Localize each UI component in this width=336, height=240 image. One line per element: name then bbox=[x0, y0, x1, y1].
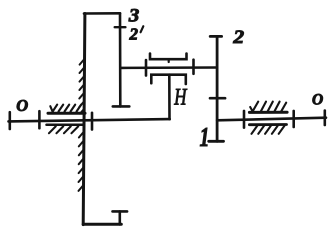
shaft O-O right segment bbox=[217, 118, 326, 121]
gear 2-1 body bbox=[216, 36, 219, 141]
shaft O-O left segment bbox=[9, 119, 170, 121]
svg-text:3: 3 bbox=[128, 6, 140, 27]
left bearing upper hatch bbox=[50, 105, 81, 112]
carrier lower bracket bbox=[151, 75, 186, 84]
shaft tick right of wall bbox=[91, 113, 94, 130]
gear 2'/3 shaft bottom cap bbox=[113, 105, 130, 108]
svg-text:1: 1 bbox=[200, 123, 210, 153]
svg-text:2: 2 bbox=[232, 27, 244, 48]
carrier H arm bbox=[168, 75, 171, 120]
right shaft tick a bbox=[243, 111, 246, 128]
gear 3 / 2' shaft vertical bbox=[119, 13, 122, 106]
gear 2' rim upper bracket bbox=[150, 54, 187, 60]
shaft end tick left bbox=[9, 112, 12, 129]
right bearing upper hatch bbox=[250, 102, 286, 112]
ring gear 3 bottom stub bbox=[119, 211, 122, 224]
mesh tick right (2) bbox=[192, 60, 195, 74]
ring gear 3 bottom cap bbox=[113, 210, 128, 213]
right shaft end tick bbox=[323, 111, 326, 125]
svg-text:O: O bbox=[16, 96, 28, 115]
shaft tick bbox=[38, 111, 41, 128]
left bearing lower hatch bbox=[49, 126, 78, 133]
right shaft tick b bbox=[292, 111, 295, 127]
ring gear 3 top rim bbox=[84, 12, 120, 15]
right bearing upper line bbox=[249, 111, 287, 114]
gear 3 mesh tick bbox=[115, 26, 126, 28]
upper bracket center pin bbox=[168, 59, 170, 62]
svg-text:H: H bbox=[173, 85, 187, 110]
label 2' prime mark bbox=[141, 26, 144, 32]
left bearing upper line bbox=[48, 112, 85, 115]
frame wall bbox=[83, 14, 85, 225]
mesh tick gear 1-2 bbox=[210, 97, 225, 100]
frame wall hatch lower bbox=[79, 132, 85, 191]
gear 2 top cap bbox=[210, 35, 221, 38]
ring gear 3 bottom rim bbox=[83, 223, 121, 226]
frame wall hatch upper bbox=[79, 59, 84, 114]
right bearing lower hatch bbox=[252, 126, 285, 134]
gear 1 bottom cap bbox=[209, 140, 224, 143]
mesh tick left (2') bbox=[145, 60, 148, 75]
planet shaft 2'-2 bbox=[120, 66, 217, 69]
svg-text:O: O bbox=[312, 92, 323, 109]
left bearing lower line bbox=[47, 124, 85, 127]
svg-text:2: 2 bbox=[129, 25, 139, 44]
right bearing lower line bbox=[249, 123, 286, 126]
